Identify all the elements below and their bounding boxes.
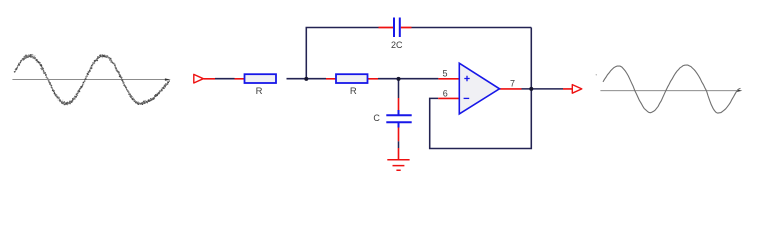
svg-text:R: R bbox=[350, 86, 357, 97]
svg-text:7: 7 bbox=[510, 78, 515, 88]
svg-text:C: C bbox=[373, 113, 380, 123]
svg-text:6: 6 bbox=[443, 88, 448, 98]
svg-text:5: 5 bbox=[442, 69, 447, 79]
svg-text:R: R bbox=[256, 86, 263, 97]
svg-text:2C: 2C bbox=[391, 40, 403, 50]
